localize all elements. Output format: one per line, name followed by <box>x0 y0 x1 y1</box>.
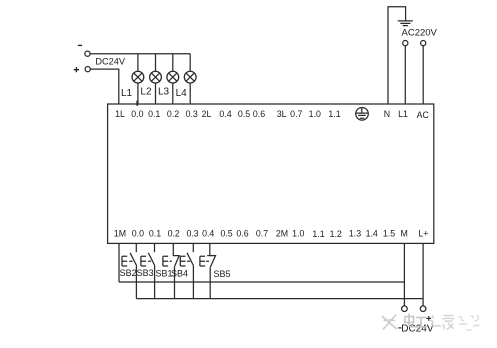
pushbutton SB4 (NO) <box>180 243 193 298</box>
wire 1M down <box>118 243 120 282</box>
svg-text:0.7: 0.7 <box>290 109 302 119</box>
svg-text:0.5: 0.5 <box>220 228 232 238</box>
wire lamp L3 bottom to input 0.2 <box>172 83 174 104</box>
svg-text:SB2: SB2 <box>120 268 137 278</box>
label plus (top left) <box>74 67 79 72</box>
terminal L1 of AC220V <box>403 41 408 46</box>
svg-text:SB1: SB1 <box>156 269 173 279</box>
svg-text:SB5: SB5 <box>214 269 231 279</box>
wire lamp L3 top <box>172 54 174 72</box>
svg-text:1M: 1M <box>114 228 126 238</box>
svg-text:0.4: 0.4 <box>202 228 214 238</box>
junction tick at input 0.0 <box>136 101 138 106</box>
watermark <box>382 314 480 331</box>
svg-text:1.1: 1.1 <box>328 109 340 119</box>
earth ground symbol <box>398 21 413 26</box>
svg-text:0.2: 0.2 <box>167 109 179 119</box>
lamp L4 <box>184 71 196 83</box>
svg-text:0.6: 0.6 <box>253 109 265 119</box>
wire lamp L1 bottom to input 0.0 <box>137 83 139 104</box>
wire lamp L4 bottom to input 0.3 <box>189 83 191 104</box>
svg-text:1.2: 1.2 <box>330 229 342 239</box>
lamp L1 <box>132 71 144 83</box>
svg-text:0.0: 0.0 <box>132 228 144 238</box>
svg-text:DC24V: DC24V <box>95 57 125 67</box>
terminal - of DC24V (top left) <box>85 51 90 56</box>
wire lamp L1 top <box>137 54 139 72</box>
wire bus M (1M to M) <box>119 281 404 283</box>
label minus (top left) <box>78 44 82 46</box>
PLC box U1 <box>108 104 434 243</box>
wire: AC220V L1 to PLC L1 <box>404 46 406 104</box>
wire lamp L4 top <box>189 54 191 72</box>
svg-text:AC220V: AC220V <box>402 28 438 39</box>
svg-text:L1: L1 <box>121 88 133 99</box>
pushbutton SB3 (NO) <box>141 243 155 298</box>
svg-text:1.5: 1.5 <box>383 228 395 238</box>
svg-text:0.6: 0.6 <box>236 228 248 238</box>
wire lamp L2 bottom to input 0.1 <box>155 83 157 104</box>
wire M terminal down <box>403 243 405 306</box>
svg-text:1.4: 1.4 <box>366 228 378 238</box>
svg-text:1.1: 1.1 <box>312 229 324 239</box>
svg-text:AC: AC <box>417 110 430 120</box>
svg-text:0.7: 0.7 <box>256 228 268 238</box>
svg-text:0.4: 0.4 <box>219 109 231 119</box>
pushbutton SB1 (NC) <box>163 243 179 298</box>
svg-text:3L: 3L <box>277 109 287 119</box>
wire bus L+ (buttons common to L+) <box>136 298 423 300</box>
svg-text:SB4: SB4 <box>171 269 188 279</box>
svg-text:1.0: 1.0 <box>292 228 304 238</box>
svg-text:2M: 2M <box>276 228 288 238</box>
svg-text:1L: 1L <box>115 109 125 119</box>
svg-text:DC24V: DC24V <box>401 324 434 335</box>
terminal + of DC24V (top left) <box>85 67 90 72</box>
terminal - of DC24V (bottom right) <box>402 306 408 312</box>
label minus (bottom right) <box>398 327 401 329</box>
lamp L2 <box>150 71 162 83</box>
pushbutton SB2 (NO) <box>122 243 137 298</box>
wire: minus bus to lamps <box>90 53 190 55</box>
terminal + of DC24V (bottom right) <box>420 306 426 312</box>
pushbutton SB5 (NC) <box>200 243 216 298</box>
svg-text:1.3: 1.3 <box>349 228 361 238</box>
svg-text:L3: L3 <box>158 87 170 98</box>
svg-text:L+: L+ <box>418 228 428 238</box>
svg-text:SB3: SB3 <box>137 268 154 278</box>
svg-text:0.3: 0.3 <box>186 109 198 119</box>
svg-text:0.1: 0.1 <box>149 228 161 238</box>
svg-text:L2: L2 <box>140 87 152 98</box>
wire lamp L2 top <box>155 54 157 72</box>
wire L+ terminal down <box>422 243 424 306</box>
wire: AC220V N to PLC AC <box>422 46 424 104</box>
terminal AC of AC220V <box>421 41 426 46</box>
svg-text:2L: 2L <box>202 109 212 119</box>
wire: plus terminal to 1L <box>90 69 119 104</box>
svg-text:N: N <box>384 109 390 119</box>
svg-text:0.5: 0.5 <box>238 109 250 119</box>
svg-text:M: M <box>401 228 408 238</box>
svg-text:0.3: 0.3 <box>186 228 198 238</box>
svg-text:0.1: 0.1 <box>148 109 160 119</box>
wire: N terminal to earth <box>388 7 406 104</box>
lamp L3 <box>167 71 179 83</box>
svg-text:0.0: 0.0 <box>131 109 143 119</box>
svg-text:0.2: 0.2 <box>168 228 180 238</box>
svg-text:L4: L4 <box>176 88 188 99</box>
svg-text:1.0: 1.0 <box>309 109 321 119</box>
label plus (bottom right) <box>426 316 431 321</box>
protective earth terminal symbol on PLC <box>356 108 369 121</box>
svg-text:L1: L1 <box>398 109 408 119</box>
